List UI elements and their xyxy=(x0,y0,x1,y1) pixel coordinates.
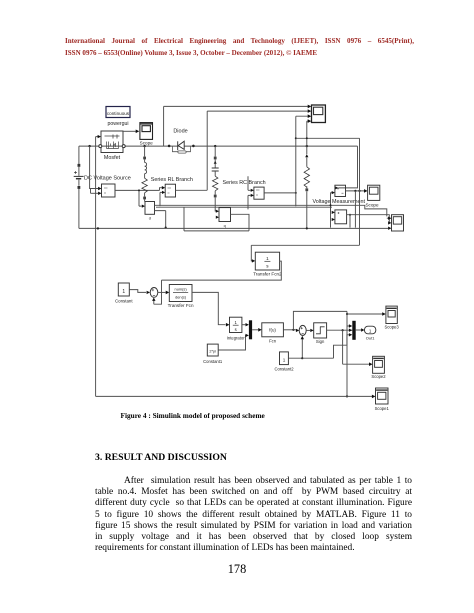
svg-text:1: 1 xyxy=(369,329,372,334)
svg-text:1: 1 xyxy=(283,357,286,362)
block Constant2 xyxy=(274,352,294,372)
block current measurement 1 xyxy=(98,184,115,197)
mux Mux2 xyxy=(352,321,355,340)
diode D1 xyxy=(168,128,195,153)
block Voltage Measurement 1 xyxy=(330,204,347,223)
svg-text:Scope: Scope xyxy=(140,140,153,145)
wire: long measurement line pair xyxy=(155,205,361,207)
svg-text:Sign: Sign xyxy=(316,339,325,344)
wire: gate signal vertical xyxy=(96,135,101,397)
wire: measurement pair to scope5 input1 xyxy=(361,205,392,220)
wire: sum to Transfer Fcn xyxy=(158,291,170,295)
svg-text:Scope3: Scope3 xyxy=(384,325,399,330)
wire: sign output to mux2 and scope2 xyxy=(327,329,373,367)
svg-text:Out1: Out1 xyxy=(366,336,375,341)
svg-text:s: s xyxy=(266,264,269,269)
scope Scope1 (bottom) xyxy=(375,388,390,411)
wire: pwm line to Scope1 xyxy=(96,395,376,399)
svg-text:Constant2: Constant2 xyxy=(274,367,294,372)
svg-text:Transfer Fcn2: Transfer Fcn2 xyxy=(253,271,282,276)
wire: constant to sum xyxy=(129,290,150,294)
transistor Mosfet xyxy=(99,131,125,161)
wire: meas1 output to line B xyxy=(115,186,165,190)
wire: feedback down to Transfer Fcn2 xyxy=(251,138,359,262)
outport Out1 xyxy=(365,326,376,340)
svg-text:Series RL Branch: Series RL Branch xyxy=(151,177,193,183)
wire A: bus tap to top scope input 1 xyxy=(164,105,312,147)
sum junction 2 xyxy=(299,325,306,335)
wire B: meas to top scope input 2 xyxy=(176,109,312,190)
block Voltage Measurement xyxy=(313,185,366,227)
svg-text:Voltage Measurement: Voltage Measurement xyxy=(313,199,366,205)
wire: integrator to mux xyxy=(242,323,249,326)
mux Mux1 xyxy=(249,320,252,339)
svg-text:Scope1: Scope1 xyxy=(375,406,390,411)
svg-text:1: 1 xyxy=(122,289,125,295)
svg-text:1: 1 xyxy=(235,320,238,325)
svg-text:continuous: continuous xyxy=(107,111,130,116)
wire: measurement line y138 xyxy=(296,137,360,139)
resistor load branch xyxy=(304,145,309,228)
sum junction 1 xyxy=(150,288,158,298)
block Transfer Fcn xyxy=(168,285,194,308)
wire: VM1 output to scope5 input2 xyxy=(347,215,392,225)
wire: RC measurement output to vertical C xyxy=(264,192,297,194)
wire: Transfer Fcn2 output feedback to sum xyxy=(152,261,281,304)
svg-text:DC Voltage Source: DC Voltage Source xyxy=(84,176,131,182)
wire: mux2 to out1 xyxy=(356,328,365,331)
svg-text:Mosfet: Mosfet xyxy=(104,155,121,161)
block Constant xyxy=(115,283,133,303)
wire: mosfet m-port to Scope xyxy=(123,130,139,134)
svg-text:2*pi: 2*pi xyxy=(209,349,216,353)
scope Scope2 xyxy=(371,356,386,379)
svg-text:Fcn: Fcn xyxy=(269,339,277,344)
block measurement 2 (d) xyxy=(138,189,155,220)
node: bus junction to measurement xyxy=(88,145,98,193)
wire: VM output to scope4 xyxy=(346,189,368,228)
svg-text:Diode: Diode xyxy=(173,128,187,134)
svg-text:Series RC Branch: Series RC Branch xyxy=(223,180,266,186)
svg-text:powergui: powergui xyxy=(107,121,128,127)
wire: q output loop xyxy=(184,207,249,231)
block measurement q xyxy=(216,208,231,228)
block Integrator xyxy=(227,317,246,340)
block Constant1 xyxy=(203,344,223,364)
block powergui xyxy=(106,107,130,128)
DC voltage source battery xyxy=(74,146,131,228)
wire: Transfer Fcn to Integrator xyxy=(192,292,230,326)
wire: mux1 to Fcn xyxy=(252,328,262,332)
svg-text:Integrator: Integrator xyxy=(227,335,246,340)
svg-text:1: 1 xyxy=(266,256,269,261)
scope Scope5 xyxy=(392,215,404,231)
svg-text:s: s xyxy=(235,327,237,332)
svg-text:Constant: Constant xyxy=(115,298,133,303)
svg-text:den(s): den(s) xyxy=(175,294,187,299)
block Sign xyxy=(314,323,327,344)
wire: constant1 to mux xyxy=(218,334,249,350)
wire: main top bus xyxy=(79,145,358,147)
wire: bus end down to voltage measurement xyxy=(335,146,358,189)
svg-text:d: d xyxy=(149,217,151,221)
branch: Series RL (inductor + resistor) xyxy=(142,145,193,202)
wire: constant2 to sum2 bottom and mux2 xyxy=(288,333,352,359)
scope Scope (top-left) xyxy=(140,123,153,146)
svg-text:f(u): f(u) xyxy=(269,328,276,333)
wire: fcn tap loop up over sum2 xyxy=(293,311,385,397)
block measurement RC (right of RC branch) xyxy=(248,176,264,209)
wire: meas2 lower output down xyxy=(155,211,167,229)
svg-text:Scope: Scope xyxy=(365,202,378,207)
scope Scope1 (top right, 4 inputs) xyxy=(312,105,326,123)
block current measurement 1b xyxy=(160,184,176,206)
svg-text:q: q xyxy=(224,224,226,228)
wire: Fcn to sum2 xyxy=(283,329,299,332)
svg-text:Transfer Fcn: Transfer Fcn xyxy=(168,303,194,308)
wire: bottom rail xyxy=(79,227,392,230)
scope Scope4 xyxy=(365,185,379,207)
wire: sum2 to sign xyxy=(306,329,314,332)
svg-text:num(s): num(s) xyxy=(175,287,188,292)
svg-text:Constant1: Constant1 xyxy=(203,359,223,364)
wire C: vertical to top scope input 3 xyxy=(295,114,312,206)
scope Scope3 xyxy=(384,306,399,330)
svg-text:Scope2: Scope2 xyxy=(371,374,386,379)
wire D: load node to top scope input 4 xyxy=(307,119,312,146)
block Fcn xyxy=(262,323,284,344)
branch: Series RC (capacitor + resistor) xyxy=(212,145,266,211)
block Transfer Fcn2 xyxy=(253,252,282,276)
